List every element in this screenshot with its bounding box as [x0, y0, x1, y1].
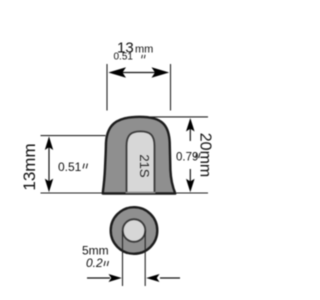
svg-text:21S: 21S [137, 154, 152, 177]
svg-text:0.79: 0.79 [176, 152, 198, 164]
svg-text:mm: mm [135, 44, 153, 56]
svg-text:20mm: 20mm [196, 133, 213, 177]
svg-text:13mm: 13mm [20, 143, 39, 190]
svg-text:0.51: 0.51 [58, 160, 82, 174]
svg-text:0.2: 0.2 [86, 256, 103, 270]
svg-text:0.51: 0.51 [114, 52, 134, 63]
